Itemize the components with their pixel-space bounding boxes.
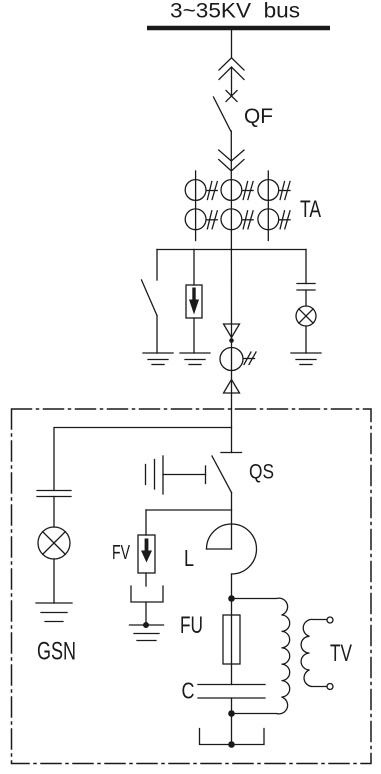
wire TA middle column <box>230 180 232 250</box>
breaker QF blade <box>214 97 231 131</box>
wire QS to reactor <box>231 493 233 550</box>
wire capacitor to node B <box>231 698 233 714</box>
CT TA circle row1 col3 <box>258 180 279 201</box>
drawout contact lower chevron 1 <box>219 150 244 161</box>
transformer TV secondary winding <box>301 619 327 686</box>
ground FV <box>130 625 164 641</box>
svg-text:QF: QF <box>244 105 273 128</box>
cable connector female (down triangle) <box>224 324 240 338</box>
cabinet enclosure dash-dot border <box>12 409 372 764</box>
CT TA secondary marks row2 col1 <box>207 211 217 229</box>
zero-sequence CT secondary marks <box>244 352 257 365</box>
capacitor GSN divider <box>37 491 71 497</box>
CT TA secondary marks row1 col1 <box>207 182 217 200</box>
wire bus to drawout contact <box>231 30 233 58</box>
wire earthing switch to ground <box>156 316 158 354</box>
surge arrester (top section) <box>186 285 202 318</box>
svg-text:GSN: GSN <box>37 638 76 666</box>
ground right branch <box>291 353 321 365</box>
wire through zero-sequence CT <box>231 338 233 394</box>
CT TA circle row2 col2 <box>221 209 242 230</box>
drawout contact upper chevron 2 <box>219 67 244 80</box>
surge arrester FV <box>138 535 155 573</box>
wire GSN tap <box>54 428 232 491</box>
disconnector QS fixed contact bar <box>221 452 242 454</box>
svg-text:3~35KV bus: 3~35KV bus <box>170 0 300 23</box>
reactor L radius line <box>207 548 232 550</box>
node dot below connector <box>229 338 234 343</box>
earthing reference of QS (rotated ground) <box>146 456 206 494</box>
wire arrester to ground <box>193 318 195 353</box>
wire junction to connector <box>230 250 232 338</box>
current transformer TA primary wire right column <box>267 171 269 241</box>
ground GSN <box>36 603 72 622</box>
wire bracket to ground FV <box>145 602 147 625</box>
node dot FV ground <box>143 622 149 628</box>
wire node B to earth bar <box>231 714 233 745</box>
distribution junction wire <box>157 249 306 251</box>
node B dot <box>228 710 235 717</box>
CT TA circle row1 col2 <box>221 180 242 201</box>
svg-text:C: C <box>182 678 195 704</box>
earthing switch blade <box>142 280 158 316</box>
wire arrester FV down <box>145 573 147 586</box>
capacitor right branch <box>297 284 315 291</box>
CT TA secondary marks row1 col3 <box>280 182 290 200</box>
svg-text:TA: TA <box>300 196 321 223</box>
wire breaker to lower chevrons <box>230 131 232 180</box>
earth bar bracket <box>200 729 265 745</box>
reactor L arc <box>207 524 257 574</box>
wire left branch drop <box>156 250 158 281</box>
bus bar <box>147 26 330 31</box>
wire lamp to ground <box>305 326 307 353</box>
svg-text:TV: TV <box>330 640 352 667</box>
wire reactor to node <box>231 574 233 599</box>
svg-text:FU: FU <box>180 612 203 639</box>
breaker QF fixed contact X <box>226 91 237 102</box>
wire capacitor to lamp GSN <box>53 497 55 528</box>
indicator lamp GSN <box>38 527 70 559</box>
CT TA secondary marks row2 col2 <box>243 211 253 229</box>
transformer TV primary winding <box>232 598 290 714</box>
wire connector into cabinet <box>231 393 233 453</box>
transformer TV secondary terminal 1 <box>327 617 333 623</box>
disconnector QS blade <box>212 456 232 493</box>
drawout contact lower chevron 2 <box>219 160 244 172</box>
indicator lamp right branch <box>296 306 316 326</box>
ground arrester branch <box>180 353 210 365</box>
wire lamp GSN to ground <box>53 559 55 603</box>
transformer TV secondary terminal 2 <box>327 684 333 690</box>
cabinet frame bracket FV <box>131 586 163 602</box>
ground left branch <box>143 353 173 365</box>
CT TA circle row2 col1 <box>185 209 206 230</box>
wire arrester branch drop <box>193 250 195 286</box>
CT TA secondary marks row1 col2 <box>243 182 253 200</box>
wire capacitor to lamp <box>305 290 307 306</box>
drawout contact upper chevron 1 <box>219 58 244 70</box>
node A dot <box>228 595 235 602</box>
wire tap to arrester FV <box>145 510 147 535</box>
svg-text:FV: FV <box>112 542 130 564</box>
cable connector male (up triangle) <box>224 380 240 394</box>
svg-text:L: L <box>184 545 194 571</box>
CT TA secondary marks row2 col3 <box>280 211 290 229</box>
node dot earth bar <box>228 741 235 748</box>
wire FV tap <box>146 509 232 511</box>
CT TA circle row1 col1 <box>185 180 206 201</box>
current transformer TA primary wire left column <box>195 171 197 241</box>
CT TA circle row2 col3 <box>258 209 279 230</box>
wire chevron to breaker contact <box>231 67 233 96</box>
zero-sequence CT circle <box>220 348 243 371</box>
svg-text:QS: QS <box>249 461 274 484</box>
fuse FU <box>223 615 240 664</box>
wire right branch drop <box>305 250 307 284</box>
capacitor C <box>198 685 265 699</box>
wire node to fuse FU <box>231 599 233 685</box>
